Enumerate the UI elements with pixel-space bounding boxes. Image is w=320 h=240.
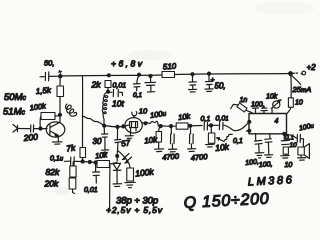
ground 100k	[125, 182, 135, 187]
capacitor 4700-1	[171, 126, 175, 148]
resistor 10k series	[176, 123, 188, 129]
svg-text:0,01: 0,01	[216, 116, 229, 123]
wire branch curve to tank bus	[83, 116, 105, 125]
wire 10R to IC pin6	[287, 107, 291, 113]
resistor 20k	[69, 178, 76, 189]
node rail/cap-A junction	[191, 73, 194, 76]
ground pin4 cap	[255, 153, 264, 158]
node output pin5	[283, 132, 286, 135]
svg-text:1,5k: 1,5k	[35, 86, 52, 96]
ground speaker	[298, 158, 306, 161]
node 4700-2	[189, 124, 192, 127]
capacitor 50p at top-left	[40, 71, 62, 81]
svg-text:20k: 20k	[44, 179, 59, 189]
resistor 10 supply	[288, 98, 293, 108]
resistor 1n tilted	[237, 103, 247, 112]
pin1 bypass cap	[253, 106, 259, 114]
node tank bus coil	[103, 124, 106, 127]
node rail/0,1 cap junction	[138, 73, 141, 76]
svg-text:100k: 100k	[135, 167, 155, 179]
wire squiggle scribble	[66, 104, 77, 116]
capacitor feedthrough (x150)	[145, 76, 156, 92]
speaker	[298, 144, 310, 159]
svg-text:+2: +2	[307, 63, 317, 72]
svg-text:4700: 4700	[162, 152, 180, 162]
wire 10k to varicap node	[110, 163, 113, 165]
wire cap to speaker	[301, 139, 304, 147]
svg-text:0,1: 0,1	[233, 138, 243, 145]
ground cap A	[189, 89, 197, 92]
trimmer 10k gain	[271, 109, 273, 114]
inductor 10t coil	[102, 93, 107, 126]
wire 0,1 to pot node	[208, 124, 211, 126]
wire 100k right lead to node	[55, 115, 60, 116]
wire rail after 510 to +2 terminal	[175, 74, 291, 75]
ground pot	[206, 144, 214, 147]
capacitor 0,01 coupling	[108, 89, 122, 97]
ground 30	[102, 150, 109, 155]
node 2k bottom	[107, 90, 110, 93]
node tank bus 57	[116, 125, 119, 128]
wire cap to base	[34, 128, 47, 130]
resistor 10 zobel	[283, 147, 288, 154]
svg-text:10: 10	[139, 107, 148, 116]
resistor R 1,5k	[57, 86, 64, 97]
ground varicap	[113, 184, 122, 187]
capacitor 0,01 AF	[93, 163, 100, 183]
wire main +6.8v power rail	[60, 75, 162, 76]
pin4 decoupling cap	[255, 134, 263, 153]
svg-text:10: 10	[290, 142, 298, 149]
svg-text:0,1u: 0,1u	[50, 156, 64, 163]
ground FET source	[125, 136, 133, 139]
ground 10k-1	[155, 149, 164, 152]
potentiometer 10k volume	[210, 126, 212, 133]
pot wiper arrow	[216, 138, 224, 142]
svg-text:10: 10	[295, 100, 303, 107]
resistor 7k	[80, 148, 86, 158]
capacitor 0,1 rail bypass (x136)	[133, 75, 140, 91]
svg-text:10k: 10k	[215, 142, 230, 153]
capacitor 30 trimmer	[102, 126, 108, 150]
bypass cap2 under IC	[265, 134, 272, 155]
terminal +2	[293, 72, 298, 74]
resistor 100k shunt	[127, 168, 134, 181]
wire AF line bus	[158, 125, 176, 127]
ground Q1 emitter	[53, 142, 63, 144]
svg-text:50,: 50,	[215, 82, 226, 91]
wire from rail node down to 10R	[290, 75, 293, 98]
node 82k tap	[88, 161, 91, 164]
node collector	[59, 113, 62, 116]
capacitor 200 input	[31, 125, 34, 132]
pin8 cap 100	[261, 106, 267, 113]
wire AF bus left	[75, 160, 83, 162]
capacitor A to ground (x192)	[189, 75, 196, 90]
svg-text:0,1: 0,1	[201, 116, 211, 123]
wire after 10k	[188, 125, 202, 127]
wire 1,5k to collector	[59, 97, 61, 123]
wire AF bus to 82k tap	[83, 161, 96, 164]
resistor 100k feedback	[41, 113, 55, 120]
svg-text:100,: 100,	[245, 159, 259, 167]
svg-text:50,: 50,	[44, 59, 54, 68]
capacitor 100u output	[285, 135, 301, 143]
node pot top	[210, 124, 213, 127]
svg-text:10t: 10t	[112, 99, 124, 109]
resistor 10k-1 to ground	[159, 126, 160, 131]
transistor Q1	[46, 122, 65, 142]
node 10k-1	[159, 125, 162, 128]
op-amp U1 LM386 body	[249, 114, 287, 134]
ground 4700-2	[188, 149, 196, 152]
svg-text:510: 510	[163, 62, 177, 72]
node rail end	[289, 72, 293, 76]
node base	[39, 127, 42, 130]
node varicap top	[116, 155, 119, 158]
capacitor 0,1u AF	[65, 157, 75, 166]
wiper squiggle 0,1	[224, 134, 232, 140]
node AF bus 7k	[81, 160, 84, 163]
wire tank bus	[104, 125, 125, 127]
svg-text:25mA: 25mA	[292, 85, 312, 94]
pin stub in-	[247, 130, 250, 132]
wire varicap to 100k	[118, 151, 131, 169]
wire 57cap down to varicap	[116, 151, 118, 162]
svg-text:30: 30	[93, 137, 102, 146]
capacitor B electrolytic 50	[206, 74, 213, 89]
capacitor 4700-2	[190, 126, 194, 148]
svg-text:1n: 1n	[240, 97, 248, 104]
svg-text:10: 10	[285, 162, 293, 169]
capacitor 57 trimmer	[115, 127, 122, 150]
wire 82k to bus	[72, 162, 74, 166]
wire tuning voltage down	[109, 166, 111, 211]
svg-text:+2,5v ÷ 5,5v: +2,5v ÷ 5,5v	[106, 205, 163, 215]
resistor 82k	[70, 166, 76, 177]
svg-text:200: 200	[22, 132, 38, 144]
inductor 100u choke wavy	[146, 121, 159, 126]
node FET gate	[122, 125, 125, 128]
wire x60 vertical from rail to 1,5k	[59, 77, 61, 87]
svg-text:0,1: 0,1	[133, 92, 142, 99]
svg-text:10k: 10k	[266, 94, 278, 101]
svg-text:2k: 2k	[91, 80, 102, 90]
node IC in-	[248, 129, 251, 132]
antenna input terminal	[13, 125, 18, 133]
svg-text:100,: 100,	[251, 102, 265, 109]
resistor 510 (series in rail)	[162, 72, 175, 78]
svg-text:0,01: 0,01	[84, 187, 98, 194]
zobel cap 0,1	[281, 134, 289, 145]
svg-text:0,01: 0,01	[113, 83, 127, 90]
wire 7k to AF bus	[82, 158, 84, 162]
svg-text:10k: 10k	[144, 135, 159, 145]
node 0,01 tap	[94, 161, 97, 164]
wire 20k bottom stub	[73, 189, 75, 194]
wire 100k left lead down to base node	[39, 116, 42, 128]
svg-text:57: 57	[121, 138, 132, 148]
wire 25mA measure tick	[292, 76, 301, 85]
capacitor 0,1 series	[204, 123, 207, 131]
wire antenna to cap	[18, 128, 30, 130]
resistor 10k AFC	[97, 161, 110, 168]
ground 4700-1	[169, 149, 177, 152]
varicap tuning arrows	[123, 154, 132, 164]
node rail/2k junction	[107, 74, 110, 77]
svg-text:100,: 100,	[259, 161, 273, 169]
transistor FET detector	[125, 115, 145, 135]
ground zobel	[281, 156, 289, 159]
wire long vertical from rail x82	[81, 76, 83, 148]
wire to IC input	[224, 122, 250, 131]
drain curl 10	[132, 112, 137, 116]
ground cap B	[205, 89, 213, 92]
node 4700-1	[170, 125, 173, 128]
svg-text:+6,8v: +6,8v	[111, 59, 143, 69]
capacitor 0,01 series-2	[211, 122, 223, 129]
varicap diode	[112, 163, 121, 184]
svg-text:82k: 82k	[46, 167, 60, 177]
node top-left	[59, 75, 62, 78]
resistor 2k	[105, 81, 111, 88]
wire 2k bottom node	[107, 88, 109, 92]
node rail/cap-B junction	[208, 72, 211, 75]
svg-text:4700: 4700	[190, 152, 208, 162]
node FET out	[144, 122, 147, 125]
ground cap2	[265, 155, 273, 158]
node rail/feedthrough junction	[149, 75, 152, 78]
svg-text:4: 4	[275, 118, 279, 125]
node IC in+	[248, 120, 251, 123]
